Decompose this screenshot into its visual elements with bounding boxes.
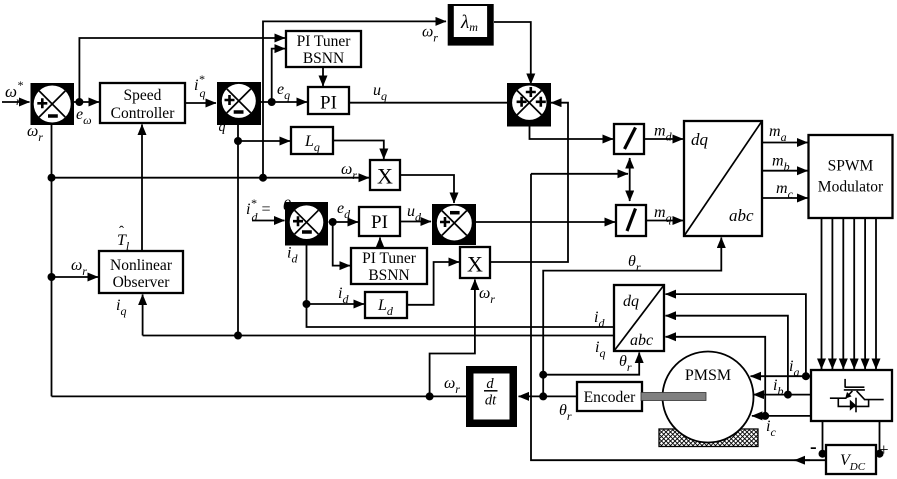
svg-text:Modulator: Modulator [818,179,884,196]
svg-text:q: q [219,120,226,135]
svg-text:X: X [467,252,483,277]
svg-text:Observer: Observer [113,274,171,291]
svg-text:-: - [810,436,817,458]
svg-text:dt: dt [485,393,497,409]
svg-text:dq: dq [623,293,639,310]
svg-text:d: d [486,376,494,392]
svg-text:PI: PI [320,93,337,114]
svg-text:BSNN: BSNN [303,50,344,67]
svg-text:+: + [879,440,889,459]
svg-text:abc: abc [630,332,653,349]
svg-text:ˆ: ˆ [119,224,124,240]
svg-text:dq: dq [691,130,709,149]
svg-text:PMSM: PMSM [685,367,731,384]
svg-text:Speed: Speed [124,87,162,104]
svg-text:Nonlinear: Nonlinear [110,257,173,274]
svg-text:abc: abc [729,206,754,225]
svg-text:PI: PI [371,212,388,233]
svg-text:PI Tuner: PI Tuner [362,250,417,267]
svg-text:X: X [377,164,393,189]
svg-text:Encoder: Encoder [584,389,636,406]
svg-text:Controller: Controller [111,105,176,122]
svg-text:SPWM: SPWM [828,158,874,175]
svg-text:PI Tuner: PI Tuner [297,33,352,50]
svg-text:BSNN: BSNN [368,267,409,284]
